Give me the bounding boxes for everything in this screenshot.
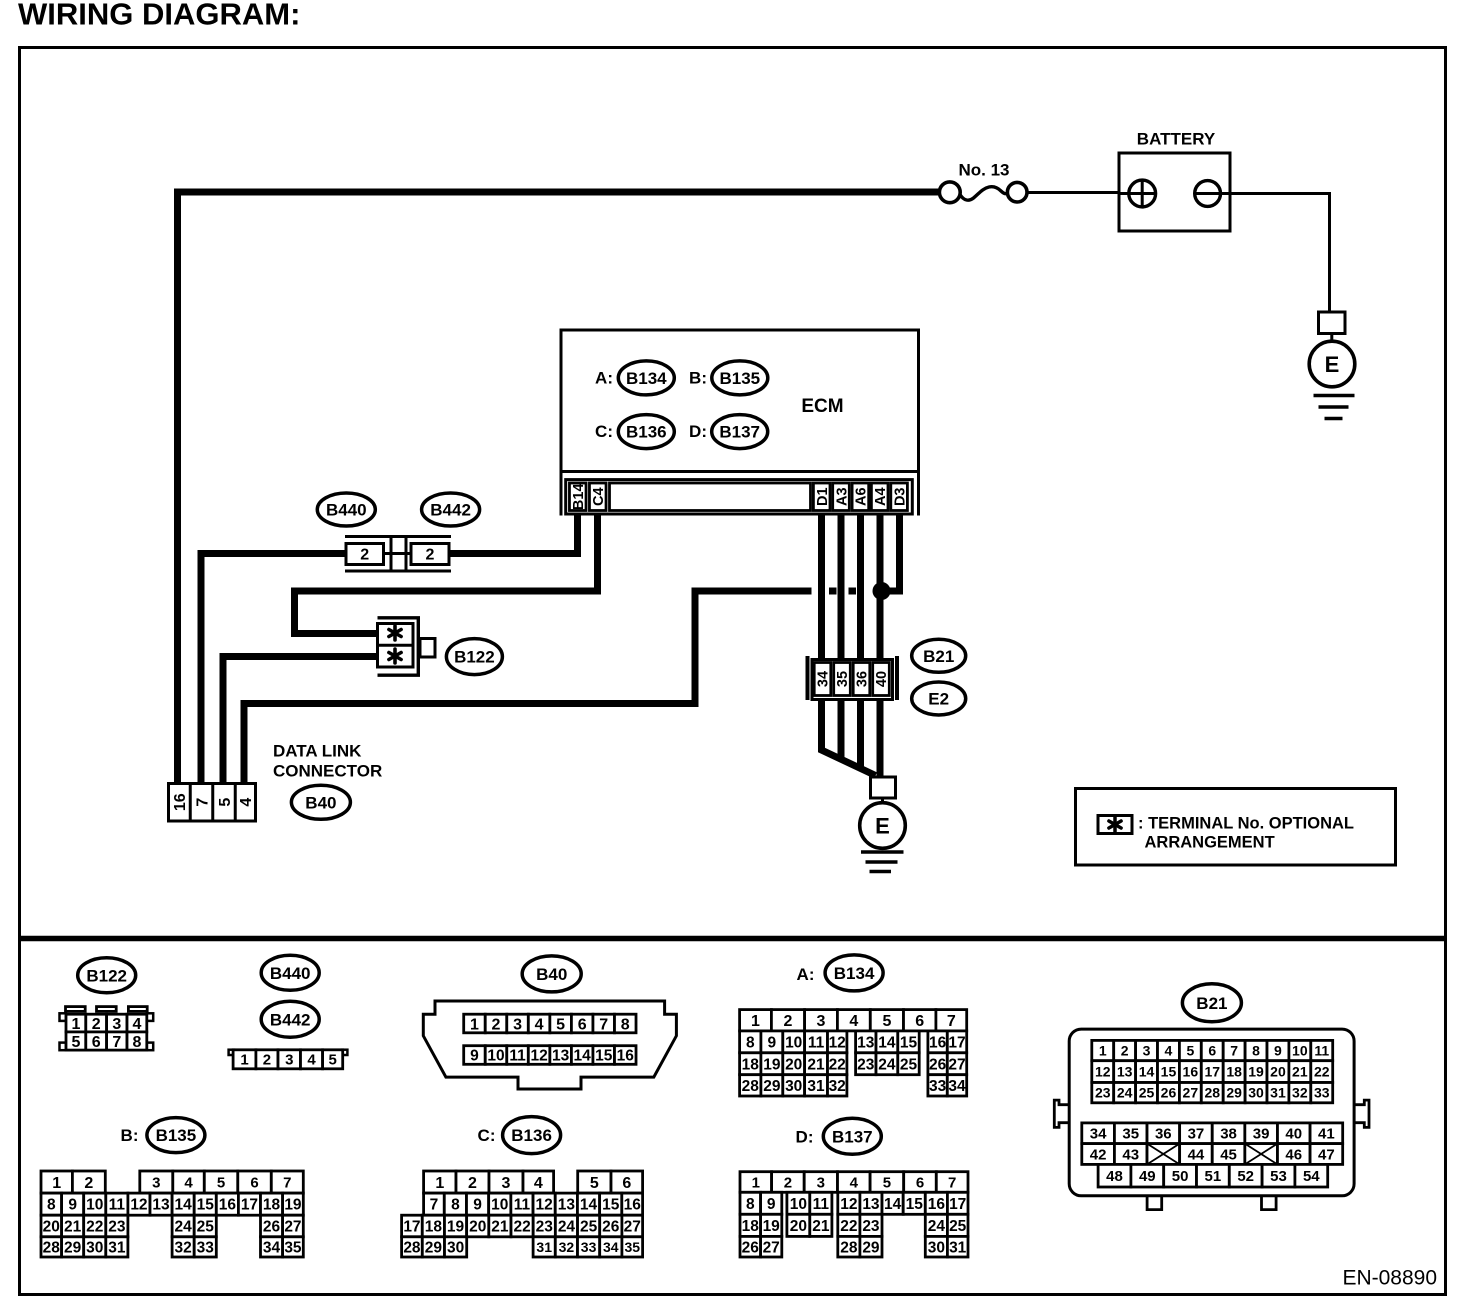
- B21 right side tab: [1354, 1100, 1369, 1127]
- svg-text:B122: B122: [86, 966, 127, 985]
- fuse No. 13: [939, 161, 1027, 203]
- svg-text:E: E: [1325, 352, 1340, 377]
- svg-text:16: 16: [1183, 1064, 1199, 1080]
- svg-text:26: 26: [929, 1056, 947, 1073]
- svg-text:8: 8: [451, 1197, 460, 1214]
- svg-text:8: 8: [47, 1197, 56, 1214]
- svg-text:1: 1: [752, 1174, 760, 1191]
- svg-text:A6: A6: [854, 487, 870, 506]
- svg-text:18: 18: [742, 1056, 760, 1073]
- svg-text:21: 21: [807, 1056, 825, 1073]
- svg-text:35: 35: [624, 1239, 640, 1255]
- svg-text:1: 1: [52, 1175, 61, 1192]
- svg-text:14: 14: [1139, 1064, 1155, 1080]
- wire: ECM A4 to B21 pin 40: [877, 514, 884, 661]
- svg-text:18: 18: [742, 1218, 760, 1235]
- B122 pin * upper: [393, 626, 397, 640]
- svg-text:10: 10: [790, 1196, 807, 1213]
- ECM box: [561, 330, 919, 516]
- svg-text:WIRING DIAGRAM:: WIRING DIAGRAM:: [18, 0, 300, 32]
- svg-text:48: 48: [1106, 1168, 1123, 1185]
- svg-text:B137: B137: [832, 1127, 873, 1146]
- wire: B21 pin 40 to ground E: [877, 698, 884, 779]
- pin C4: [589, 483, 606, 511]
- title: [18, 0, 300, 32]
- svg-text:24: 24: [175, 1219, 193, 1236]
- svg-text:33: 33: [1314, 1085, 1330, 1101]
- svg-text:B136: B136: [511, 1126, 552, 1145]
- battery + terminal: [1129, 180, 1156, 207]
- svg-text:10: 10: [785, 1034, 802, 1051]
- svg-text:3: 3: [1143, 1043, 1151, 1059]
- svg-text:13: 13: [862, 1196, 880, 1213]
- svg-text:10: 10: [487, 1048, 504, 1065]
- svg-text:A4: A4: [873, 487, 889, 506]
- svg-text:12: 12: [1095, 1064, 1111, 1080]
- svg-text:1: 1: [435, 1175, 444, 1192]
- junction dot (A4/D3/ground node): [873, 582, 891, 600]
- svg-text:28: 28: [403, 1240, 421, 1257]
- B122 label: [446, 639, 502, 675]
- svg-text:12: 12: [829, 1034, 846, 1051]
- svg-text:B122: B122: [454, 648, 495, 667]
- svg-text:34: 34: [603, 1239, 619, 1255]
- svg-text:8: 8: [1252, 1043, 1260, 1059]
- svg-text:17: 17: [1204, 1064, 1220, 1080]
- svg-text:14: 14: [580, 1197, 598, 1214]
- connector face B440/B442: [229, 955, 348, 1069]
- svg-text:22: 22: [829, 1056, 846, 1073]
- svg-text:8: 8: [746, 1196, 755, 1213]
- pin A4: [871, 483, 888, 511]
- svg-text:B21: B21: [1196, 994, 1227, 1013]
- svg-text:13: 13: [552, 1048, 570, 1065]
- svg-text:12: 12: [840, 1196, 857, 1213]
- svg-text:25: 25: [1139, 1085, 1155, 1101]
- wire: ECM C4 to B122 pin * (upper): [295, 514, 598, 634]
- svg-text:31: 31: [536, 1239, 552, 1255]
- svg-text:21: 21: [64, 1219, 82, 1236]
- wire: ECM D1 to B21 pin 34: [818, 514, 825, 661]
- svg-text:15: 15: [900, 1034, 918, 1051]
- pin 40: [873, 663, 890, 696]
- svg-text:8: 8: [132, 1034, 141, 1051]
- svg-text:11: 11: [109, 1197, 126, 1214]
- svg-text:B134: B134: [834, 964, 875, 983]
- svg-text:6: 6: [250, 1175, 258, 1192]
- svg-text:34: 34: [816, 671, 832, 687]
- svg-text:4: 4: [849, 1013, 858, 1030]
- svg-text:A:: A:: [595, 369, 613, 388]
- svg-text:29: 29: [64, 1240, 82, 1257]
- svg-text:3: 3: [817, 1174, 825, 1191]
- svg-text:B136: B136: [626, 423, 667, 442]
- svg-text:ECM: ECM: [801, 396, 843, 417]
- svg-text:20: 20: [1270, 1064, 1286, 1080]
- svg-text:50: 50: [1172, 1168, 1189, 1185]
- svg-text:4: 4: [534, 1175, 543, 1192]
- svg-text:15: 15: [1161, 1064, 1177, 1080]
- svg-text:2: 2: [784, 1013, 793, 1030]
- svg-text:6: 6: [578, 1016, 587, 1033]
- svg-text:34: 34: [948, 1078, 966, 1095]
- svg-text:ARRANGEMENT: ARRANGEMENT: [1145, 833, 1275, 851]
- pin B14: [569, 483, 586, 511]
- svg-text:2: 2: [426, 547, 435, 564]
- svg-text:9: 9: [68, 1197, 77, 1214]
- B21 left side tab: [1054, 1100, 1069, 1127]
- svg-text:30: 30: [928, 1239, 945, 1256]
- B442 pin 2 box: [411, 544, 449, 565]
- svg-text:15: 15: [197, 1197, 215, 1214]
- svg-text:1: 1: [71, 1016, 80, 1033]
- svg-text:E2: E2: [928, 690, 949, 709]
- wire: ECM B14 to connector B442 pin 2: [450, 514, 578, 554]
- svg-text:9: 9: [470, 1048, 479, 1065]
- svg-text:B442: B442: [430, 501, 471, 520]
- svg-text:22: 22: [513, 1219, 530, 1236]
- svg-text:14: 14: [574, 1048, 592, 1065]
- svg-text:35: 35: [835, 671, 851, 687]
- svg-text:D:: D:: [796, 1127, 814, 1146]
- svg-text:7: 7: [194, 798, 211, 807]
- svg-text:16: 16: [617, 1048, 635, 1065]
- svg-text:D1: D1: [815, 487, 831, 506]
- svg-text:B21: B21: [923, 647, 954, 666]
- svg-text:21: 21: [491, 1219, 509, 1236]
- wire: B21 pin 36 merge to ground: [857, 698, 864, 769]
- svg-text:20: 20: [43, 1219, 60, 1236]
- svg-text:3: 3: [152, 1175, 160, 1192]
- svg-text:14: 14: [175, 1197, 193, 1214]
- drawing number: [1342, 1267, 1437, 1290]
- svg-text:29: 29: [763, 1078, 781, 1095]
- wire: B21 pin 35 merge to ground: [838, 698, 845, 760]
- connector face D: B137: [740, 1118, 968, 1257]
- svg-text:7: 7: [112, 1034, 121, 1051]
- svg-text:11: 11: [808, 1034, 825, 1051]
- svg-text:3: 3: [817, 1013, 826, 1030]
- svg-text:34: 34: [263, 1240, 281, 1257]
- svg-text:53: 53: [1270, 1168, 1287, 1185]
- svg-text:28: 28: [43, 1240, 61, 1257]
- svg-text:12: 12: [530, 1048, 547, 1065]
- svg-text:19: 19: [447, 1219, 465, 1236]
- svg-text:16: 16: [219, 1197, 237, 1214]
- svg-text:4: 4: [850, 1174, 859, 1191]
- svg-text:6: 6: [622, 1175, 631, 1192]
- svg-text:45: 45: [1220, 1146, 1237, 1163]
- svg-text:BATTERY: BATTERY: [1137, 130, 1216, 149]
- wire: B21 pin 34 merge to ground: [822, 698, 876, 776]
- svg-text:35: 35: [1122, 1126, 1139, 1143]
- svg-text:27: 27: [948, 1056, 965, 1073]
- svg-text:32: 32: [1292, 1085, 1308, 1101]
- svg-text:3: 3: [112, 1016, 121, 1033]
- svg-text:7: 7: [1230, 1043, 1238, 1059]
- svg-text:C:: C:: [478, 1126, 496, 1145]
- svg-text:32: 32: [559, 1239, 575, 1255]
- svg-text:12: 12: [130, 1197, 147, 1214]
- svg-text:37: 37: [1188, 1126, 1205, 1143]
- svg-text:19: 19: [763, 1056, 781, 1073]
- svg-text:5: 5: [217, 798, 234, 807]
- ground E (ECM side): [860, 777, 906, 872]
- svg-text:16: 16: [929, 1034, 947, 1051]
- svg-text:D:: D:: [689, 422, 707, 441]
- svg-text:16: 16: [928, 1196, 946, 1213]
- svg-text:36: 36: [855, 671, 871, 687]
- svg-text:19: 19: [763, 1218, 781, 1235]
- svg-text:13: 13: [152, 1197, 170, 1214]
- svg-text:9: 9: [473, 1197, 482, 1214]
- svg-text:B137: B137: [719, 423, 760, 442]
- pin A6: [852, 483, 869, 511]
- svg-text:2: 2: [468, 1175, 477, 1192]
- svg-text:4: 4: [1165, 1043, 1173, 1059]
- svg-text:11: 11: [1314, 1043, 1329, 1059]
- svg-text:4: 4: [238, 798, 255, 807]
- svg-text:23: 23: [108, 1219, 126, 1236]
- svg-text:6: 6: [92, 1034, 101, 1051]
- svg-text:28: 28: [742, 1078, 760, 1095]
- data link connector B40: [169, 742, 383, 821]
- svg-text:25: 25: [949, 1218, 967, 1235]
- svg-text:27: 27: [763, 1239, 780, 1256]
- svg-text:36: 36: [1155, 1126, 1172, 1143]
- svg-text:B442: B442: [270, 1010, 311, 1029]
- svg-text:B40: B40: [536, 965, 567, 984]
- svg-text:40: 40: [1285, 1126, 1302, 1143]
- svg-text:C4: C4: [591, 487, 607, 506]
- svg-text:40: 40: [874, 671, 890, 687]
- svg-text:6: 6: [1208, 1043, 1216, 1059]
- svg-text:29: 29: [862, 1239, 880, 1256]
- svg-text:1: 1: [1099, 1043, 1107, 1059]
- svg-text:19: 19: [284, 1197, 302, 1214]
- svg-text:31: 31: [1270, 1085, 1286, 1101]
- svg-text:26: 26: [263, 1219, 281, 1236]
- svg-text:16: 16: [172, 793, 189, 811]
- wire: ECM A6 to B21 pin 36: [857, 514, 864, 661]
- svg-text:EN-08890: EN-08890: [1342, 1267, 1437, 1290]
- svg-text:E: E: [875, 813, 890, 838]
- svg-text:5: 5: [883, 1174, 891, 1191]
- svg-text:13: 13: [1117, 1064, 1133, 1080]
- pin 36: [853, 663, 870, 696]
- wire: DLC pin 4 to ground node (A4/D3 junction): [244, 591, 856, 782]
- svg-text:17: 17: [948, 1034, 965, 1051]
- svg-text:23: 23: [862, 1218, 880, 1235]
- svg-text:6: 6: [916, 1174, 924, 1191]
- svg-text:7: 7: [430, 1197, 439, 1214]
- svg-text:18: 18: [1226, 1064, 1242, 1080]
- B21 bottom tabs: [1147, 1195, 1162, 1210]
- svg-text:49: 49: [1139, 1168, 1156, 1185]
- E2 label: [912, 682, 966, 715]
- svg-text:5: 5: [556, 1016, 565, 1033]
- svg-text:2: 2: [784, 1174, 792, 1191]
- svg-text:23: 23: [536, 1219, 554, 1236]
- svg-text:7: 7: [283, 1175, 291, 1192]
- svg-text:2: 2: [84, 1175, 93, 1192]
- svg-text:26: 26: [1161, 1085, 1177, 1101]
- connector face B40 (data link): [423, 956, 676, 1089]
- wire: battery to ground E: [1221, 194, 1330, 313]
- svg-text:27: 27: [284, 1219, 301, 1236]
- svg-text:5: 5: [590, 1175, 599, 1192]
- svg-text:10: 10: [86, 1197, 103, 1214]
- svg-text:: TERMINAL No. OPTIONAL: : TERMINAL No. OPTIONAL: [1138, 814, 1354, 832]
- svg-text:32: 32: [175, 1240, 192, 1257]
- svg-text:15: 15: [602, 1197, 620, 1214]
- svg-text:B:: B:: [689, 369, 707, 388]
- svg-text:10: 10: [491, 1197, 508, 1214]
- svg-text:CONNECTOR: CONNECTOR: [273, 762, 382, 781]
- svg-text:2: 2: [92, 1016, 101, 1033]
- svg-text:41: 41: [1318, 1126, 1335, 1143]
- ground E (battery side): [1309, 312, 1355, 419]
- svg-text:24: 24: [878, 1056, 896, 1073]
- svg-text:8: 8: [746, 1034, 755, 1051]
- connector face A: B134: [740, 955, 967, 1096]
- svg-text:54: 54: [1303, 1168, 1320, 1185]
- wire: B122 pin * (lower) to DLC pin 5: [223, 657, 378, 783]
- svg-text:20: 20: [469, 1219, 486, 1236]
- svg-text:27: 27: [624, 1219, 641, 1236]
- svg-text:30: 30: [447, 1240, 464, 1257]
- svg-text:1: 1: [240, 1052, 248, 1069]
- svg-text:17: 17: [241, 1197, 258, 1214]
- svg-text:4: 4: [184, 1175, 193, 1192]
- pin D1: [813, 483, 830, 511]
- svg-text:20: 20: [790, 1218, 807, 1235]
- svg-text:43: 43: [1122, 1146, 1139, 1163]
- svg-text:31: 31: [949, 1239, 967, 1256]
- svg-text:B14: B14: [571, 483, 587, 510]
- svg-text:2: 2: [1121, 1043, 1129, 1059]
- connector pair B440/B442: [317, 493, 479, 571]
- svg-text:26: 26: [742, 1239, 760, 1256]
- svg-text:B:: B:: [121, 1126, 139, 1145]
- svg-text:15: 15: [906, 1196, 924, 1213]
- svg-text:3: 3: [502, 1175, 511, 1192]
- svg-text:18: 18: [425, 1219, 443, 1236]
- svg-text:19: 19: [1248, 1064, 1264, 1080]
- svg-text:4: 4: [132, 1016, 141, 1033]
- svg-text:3: 3: [513, 1016, 522, 1033]
- svg-text:11: 11: [509, 1048, 526, 1065]
- svg-text:31: 31: [108, 1240, 126, 1257]
- ECM pin strip: [566, 480, 913, 514]
- B440 label: [317, 493, 375, 526]
- svg-text:DATA LINK: DATA LINK: [273, 742, 362, 761]
- B442 label: [422, 493, 480, 526]
- svg-text:3: 3: [285, 1052, 293, 1069]
- svg-text:29: 29: [425, 1240, 443, 1257]
- svg-text:6: 6: [915, 1013, 924, 1030]
- svg-text:15: 15: [595, 1048, 613, 1065]
- svg-text:13: 13: [558, 1197, 576, 1214]
- svg-text:30: 30: [86, 1240, 103, 1257]
- pin D3: [891, 483, 908, 511]
- svg-text:21: 21: [812, 1218, 830, 1235]
- svg-text:22: 22: [840, 1218, 857, 1235]
- svg-text:24: 24: [928, 1218, 946, 1235]
- wire: connector B440 pin 2 to DLC pin 7: [201, 554, 346, 783]
- svg-text:51: 51: [1205, 1168, 1222, 1185]
- svg-text:14: 14: [884, 1196, 902, 1213]
- svg-text:33: 33: [929, 1078, 947, 1095]
- svg-text:26: 26: [602, 1219, 620, 1236]
- svg-text:B135: B135: [719, 369, 760, 388]
- pin A3: [833, 483, 850, 511]
- battery - terminal: [1195, 181, 1221, 207]
- svg-text:25: 25: [580, 1219, 598, 1236]
- B21 label: [912, 639, 966, 672]
- B440 pin 2 box: [346, 544, 384, 565]
- svg-text:16: 16: [624, 1197, 642, 1214]
- connector face B: B135: [41, 1118, 303, 1257]
- svg-text:44: 44: [1188, 1146, 1205, 1163]
- svg-text:20: 20: [785, 1056, 802, 1073]
- svg-text:22: 22: [86, 1219, 103, 1236]
- svg-text:33: 33: [197, 1240, 215, 1257]
- svg-text:9: 9: [1274, 1043, 1282, 1059]
- svg-text:32: 32: [829, 1078, 846, 1095]
- svg-text:5: 5: [1186, 1043, 1194, 1059]
- svg-text:B440: B440: [270, 964, 311, 983]
- svg-text:A3: A3: [834, 487, 850, 506]
- svg-text:23: 23: [1095, 1085, 1111, 1101]
- wire: fuse to battery: [1028, 191, 1119, 194]
- svg-text:12: 12: [536, 1197, 553, 1214]
- svg-text:30: 30: [1248, 1085, 1264, 1101]
- svg-text:No. 13: No. 13: [958, 161, 1009, 180]
- svg-text:24: 24: [558, 1219, 576, 1236]
- svg-text:7: 7: [947, 1013, 956, 1030]
- svg-text:23: 23: [857, 1056, 875, 1073]
- legend: terminal optional arrangement: [1076, 789, 1396, 866]
- svg-text:2: 2: [492, 1016, 501, 1033]
- svg-text:39: 39: [1253, 1126, 1270, 1143]
- battery: [1119, 130, 1230, 231]
- svg-text:5: 5: [328, 1052, 336, 1069]
- svg-text:22: 22: [1314, 1064, 1330, 1080]
- svg-text:7: 7: [599, 1016, 608, 1033]
- svg-text:35: 35: [284, 1240, 302, 1257]
- svg-text:11: 11: [813, 1196, 830, 1213]
- svg-text:4: 4: [307, 1052, 316, 1069]
- svg-text:8: 8: [621, 1016, 630, 1033]
- svg-text:17: 17: [403, 1219, 420, 1236]
- B122 pin * lower: [393, 649, 397, 663]
- svg-text:13: 13: [857, 1034, 875, 1051]
- svg-text:C:: C:: [595, 422, 613, 441]
- svg-text:28: 28: [1204, 1085, 1220, 1101]
- connector B122: [378, 618, 503, 675]
- wire: battery feed from fuse to DLC pin 16: [178, 192, 942, 782]
- svg-text:5: 5: [71, 1034, 80, 1051]
- svg-text:21: 21: [1292, 1064, 1308, 1080]
- connector face B21: [1054, 984, 1369, 1210]
- svg-text:4: 4: [535, 1016, 544, 1033]
- svg-text:9: 9: [768, 1034, 777, 1051]
- B122 tab: [420, 639, 435, 658]
- svg-text:34: 34: [1090, 1126, 1107, 1143]
- svg-text:2: 2: [360, 547, 369, 564]
- svg-text:14: 14: [878, 1034, 896, 1051]
